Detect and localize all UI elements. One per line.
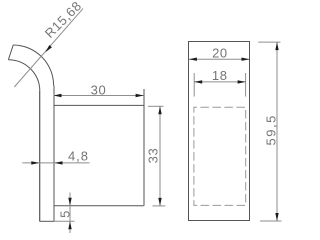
svg-text:30: 30	[91, 83, 107, 98]
svg-text:59,5: 59,5	[264, 114, 279, 145]
svg-text:20: 20	[212, 46, 228, 61]
svg-text:18: 18	[212, 68, 228, 83]
svg-text:5: 5	[57, 210, 72, 218]
svg-text:4,8: 4,8	[68, 149, 89, 164]
svg-text:33: 33	[146, 148, 161, 164]
